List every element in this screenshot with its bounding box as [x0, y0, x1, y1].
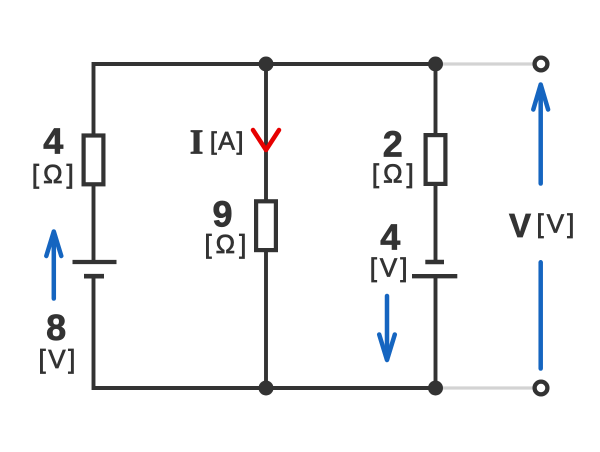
arrow: V measurement (blue, up, upper segment with head): [538, 86, 543, 184]
battery 8V (left branch): long plate top, short plate bottom: [73, 260, 117, 264]
terminal: bottom open terminal: [535, 382, 548, 395]
svg-text:[Ω]: [Ω]: [32, 159, 78, 189]
svg-text:4: 4: [380, 216, 400, 257]
svg-text:4: 4: [43, 121, 63, 162]
arrow: 8V polarity (blue, up): [52, 232, 57, 299]
svg-text:[Ω]: [Ω]: [204, 229, 250, 259]
node: bottom middle junction: [259, 381, 274, 396]
resistor 4 ohm (left branch): [84, 136, 104, 185]
svg-text:[V]: [V]: [39, 344, 78, 374]
svg-text:[V]: [V]: [370, 253, 411, 283]
svg-text:[A]: [A]: [210, 128, 245, 156]
resistor 2 ohm (right branch): [426, 135, 446, 184]
resistor 9 ohm (middle branch): [256, 201, 276, 250]
node: top middle junction: [259, 57, 274, 72]
svg-text:I: I: [190, 123, 204, 162]
terminal: top open terminal: [535, 58, 548, 71]
current direction arrow I (red chevron on middle branch): [253, 130, 279, 150]
wire: main black circuit wires: [94, 64, 436, 388]
battery 4V (right branch): short plate top, long plate bottom: [425, 260, 444, 265]
arrow: V measurement (blue, lower segment): [538, 262, 543, 368]
arrow: 4V polarity (blue, down): [385, 296, 390, 360]
wire: gray open-circuit leads to terminals: [436, 64, 542, 388]
svg-text:[Ω]: [Ω]: [372, 159, 418, 189]
node: bottom right junction: [428, 381, 443, 396]
svg-text:8: 8: [46, 307, 66, 348]
svg-text:[V]: [V]: [537, 209, 578, 239]
svg-text:V: V: [509, 207, 531, 244]
node: top right junction: [428, 57, 443, 72]
